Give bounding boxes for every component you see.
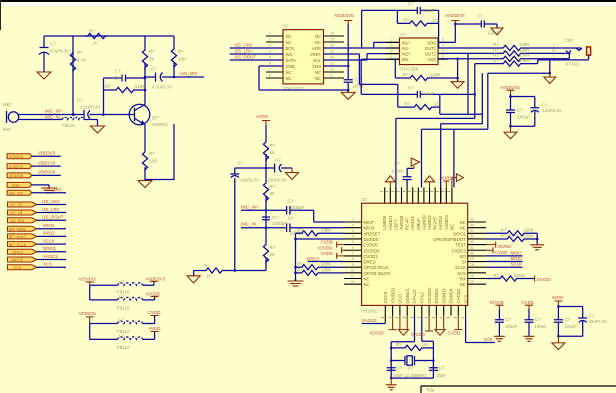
svg-text:100R: 100R — [430, 72, 441, 77]
svg-text:R?: R? — [493, 58, 499, 63]
svg-text:DREQ: DREQ — [13, 251, 24, 255]
svg-text:XTALI: XTALI — [420, 292, 425, 304]
svg-text:WS: WS — [286, 52, 293, 57]
svg-text:DREQ: DREQ — [307, 256, 320, 261]
svg-text:C?: C? — [77, 98, 83, 103]
svg-text:CN?: CN? — [565, 38, 574, 43]
svg-text:VDD: VDD — [312, 64, 321, 69]
svg-text:CVDD: CVDD — [448, 331, 460, 336]
svg-text:CVDD: CVDD — [148, 310, 160, 315]
svg-text:10uF6.3V: 10uF6.3V — [588, 319, 607, 324]
svg-text:8: 8 — [442, 38, 444, 42]
svg-text:I2S_LR: I2S_LR — [10, 211, 23, 215]
svg-text:C?: C? — [408, 2, 414, 7]
svg-text:8: 8 — [269, 74, 271, 78]
svg-text:31: 31 — [470, 246, 474, 250]
svg-text:C?: C? — [50, 42, 56, 47]
svg-text:C?: C? — [588, 313, 594, 318]
svg-text:2: 2 — [553, 43, 555, 47]
svg-text:10uF6.3V: 10uF6.3V — [543, 108, 562, 113]
svg-text:CVDD: CVDD — [495, 250, 507, 255]
svg-text:NC: NC — [460, 282, 466, 287]
svg-text:NC: NC — [315, 40, 321, 45]
svg-text:C?: C? — [238, 161, 244, 166]
svg-text:SPI_MISO: SPI_MISO — [9, 235, 27, 239]
svg-text:MISO: MISO — [43, 231, 55, 236]
svg-text:25: 25 — [470, 280, 474, 284]
svg-text:9: 9 — [330, 74, 332, 78]
svg-text:NC: NC — [315, 70, 321, 75]
svg-text:CAP: CAP — [114, 76, 123, 81]
svg-text:XADCS: XADCS — [43, 254, 58, 259]
svg-text:AVDD: AVDD — [441, 175, 453, 180]
svg-text:IOVDD: IOVDD — [498, 244, 512, 249]
svg-text:AIN_MIC: AIN_MIC — [44, 187, 62, 192]
svg-text:AVDD2V5: AVDD2V5 — [445, 13, 465, 18]
svg-text:XRESET: XRESET — [364, 231, 381, 236]
svg-text:DGND3: DGND3 — [441, 288, 446, 304]
svg-text:R?: R? — [89, 29, 95, 34]
svg-text:AGND1: AGND1 — [388, 215, 393, 230]
svg-text:1: 1 — [390, 38, 392, 42]
svg-text:R?: R? — [404, 18, 410, 23]
svg-text:32: 32 — [470, 240, 474, 244]
svg-text:R?: R? — [493, 47, 499, 52]
svg-text:MK?: MK? — [3, 102, 13, 107]
svg-text:26: 26 — [470, 274, 474, 278]
svg-text:VDD3V3: VDD3V3 — [38, 151, 56, 156]
svg-text:100K: 100K — [321, 227, 331, 232]
svg-text:CVDD: CVDD — [522, 300, 534, 305]
svg-text:R?: R? — [501, 233, 507, 238]
svg-text:1K: 1K — [92, 41, 97, 46]
svg-text:C?: C? — [288, 216, 294, 221]
svg-text:R?: R? — [105, 84, 111, 89]
svg-text:R?: R? — [149, 49, 155, 54]
svg-text:3K: 3K — [270, 191, 275, 196]
svg-text:FB110: FB110 — [117, 305, 130, 310]
svg-text:1: 1 — [352, 218, 354, 222]
svg-text:I2S_LR0: I2S_LR0 — [235, 48, 253, 53]
svg-text:AVDD2V5: AVDD2V5 — [334, 13, 354, 18]
svg-text:U?: U? — [362, 197, 368, 202]
svg-text:VREF: VREF — [310, 52, 322, 57]
svg-text:7: 7 — [269, 68, 271, 72]
svg-text:CVDD2: CVDD2 — [456, 288, 461, 303]
svg-text:R?: R? — [494, 273, 500, 278]
svg-text:2N3904: 2N3904 — [152, 122, 168, 127]
svg-text:MIC: MIC — [3, 127, 11, 132]
svg-text:3: 3 — [269, 44, 271, 48]
svg-text:CVDD3: CVDD3 — [452, 248, 467, 253]
svg-text:C?: C? — [275, 158, 281, 163]
svg-text:MIC_IN+: MIC_IN+ — [45, 109, 63, 114]
svg-text:NC: NC — [364, 277, 370, 282]
svg-text:XCS: XCS — [463, 295, 468, 304]
svg-text:100K: 100K — [523, 233, 533, 238]
svg-text:IN2+: IN2+ — [402, 52, 412, 57]
svg-text:47uF6.3V: 47uF6.3V — [50, 49, 69, 54]
svg-text:36: 36 — [470, 218, 474, 222]
svg-text:Title: Title — [426, 388, 435, 393]
svg-text:MICP: MICP — [364, 220, 375, 225]
svg-text:10K: 10K — [178, 57, 186, 62]
svg-text:AVDD: AVDD — [552, 295, 564, 300]
svg-text:IOVDD: IOVDD — [537, 277, 551, 282]
svg-text:R?: R? — [149, 151, 155, 156]
svg-text:30: 30 — [470, 252, 474, 256]
svg-text:12: 12 — [330, 56, 334, 60]
svg-text:IOVDD1: IOVDD1 — [390, 287, 395, 304]
svg-text:9: 9 — [352, 263, 354, 267]
svg-text:IOVDD: IOVDD — [411, 332, 425, 337]
svg-text:AOR: AOR — [312, 46, 321, 51]
svg-text:I2S_CK0: I2S_CK0 — [235, 42, 253, 47]
svg-text:OUT2: OUT2 — [425, 52, 437, 57]
svg-text:C?: C? — [272, 215, 278, 220]
svg-text:15: 15 — [330, 38, 334, 42]
svg-text:GPIO2 DCLK: GPIO2 DCLK — [364, 265, 389, 270]
svg-text:VS1001: VS1001 — [362, 309, 378, 314]
svg-text:CVDD1: CVDD1 — [364, 254, 379, 259]
svg-text:AIN_MIC: AIN_MIC — [180, 71, 198, 76]
svg-text:VDD2V5: VDD2V5 — [38, 160, 56, 165]
svg-text:C?: C? — [115, 69, 121, 74]
svg-text:VCO: VCO — [398, 294, 403, 304]
svg-text:VDD0V8: VDD0V8 — [9, 174, 23, 178]
svg-text:R?: R? — [405, 101, 411, 106]
svg-text:AVDD3V3: AVDD3V3 — [146, 276, 166, 281]
svg-text:R?: R? — [77, 50, 83, 55]
svg-text:1000pF: 1000pF — [272, 221, 287, 226]
svg-text:CVDD: CVDD — [321, 251, 333, 256]
svg-text:VDD: VDD — [427, 40, 436, 45]
svg-text:RCAP: RCAP — [405, 218, 410, 230]
svg-text:1000pF: 1000pF — [290, 205, 305, 210]
svg-text:MIC_IN+: MIC_IN+ — [241, 204, 259, 209]
svg-text:10: 10 — [330, 68, 334, 72]
svg-text:IOVDD0: IOVDD0 — [364, 248, 380, 253]
svg-text:35: 35 — [470, 223, 474, 227]
svg-text:33: 33 — [470, 235, 474, 239]
svg-text:DGND4: DGND4 — [449, 288, 454, 304]
svg-text:XTALO: XTALO — [412, 289, 417, 303]
svg-text:11: 11 — [330, 62, 334, 66]
svg-text:AVDD: AVDD — [256, 114, 268, 119]
svg-text:AOL: AOL — [313, 58, 322, 63]
svg-text:510K: 510K — [135, 84, 145, 89]
svg-text:L?: L? — [119, 294, 124, 299]
svg-text:XCS: XCS — [457, 271, 466, 276]
svg-text:LINEIN: LINEIN — [382, 216, 387, 230]
svg-text:6: 6 — [269, 62, 271, 66]
svg-text:XCS: XCS — [14, 266, 22, 270]
svg-text:X?: X? — [408, 366, 414, 371]
svg-text:GPIO1: GPIO1 — [453, 231, 466, 236]
svg-text:LEFT: LEFT — [393, 219, 398, 230]
svg-text:AVDD1: AVDD1 — [410, 215, 415, 230]
svg-text:AVDD2V5: AVDD2V5 — [500, 85, 520, 90]
svg-text:R?: R? — [298, 267, 304, 272]
svg-text:29: 29 — [470, 257, 474, 261]
svg-text:10pF: 10pF — [393, 373, 403, 378]
svg-text:R?: R? — [298, 262, 304, 267]
svg-text:2.2uF6.3V: 2.2uF6.3V — [80, 105, 100, 110]
svg-text:100nF: 100nF — [392, 168, 405, 173]
svg-text:1K: 1K — [270, 150, 275, 155]
svg-text:C?: C? — [394, 161, 400, 166]
svg-text:IOVDD: IOVDD — [146, 291, 160, 296]
svg-text:SCLK: SCLK — [43, 238, 55, 243]
svg-text:2: 2 — [352, 223, 354, 227]
svg-text:R?: R? — [298, 227, 304, 232]
svg-text:IN1-: IN1- — [402, 46, 411, 51]
svg-text:1K: 1K — [206, 274, 211, 279]
svg-text:2: 2 — [390, 44, 392, 48]
svg-text:MIC_IN-: MIC_IN- — [241, 222, 258, 227]
svg-text:NC: NC — [286, 70, 292, 75]
svg-text:100R: 100R — [519, 53, 530, 58]
svg-text:AVDD: AVDD — [149, 326, 161, 331]
svg-text:4.7K: 4.7K — [77, 58, 86, 63]
svg-text:7: 7 — [352, 252, 354, 256]
svg-text:4: 4 — [352, 235, 354, 239]
svg-text:C?: C? — [542, 103, 548, 108]
svg-text:C?: C? — [535, 317, 541, 322]
svg-text:12: 12 — [351, 280, 355, 284]
svg-text:GND: GND — [286, 64, 295, 69]
svg-text:SCLK: SCLK — [511, 262, 523, 267]
svg-text:12.288MHz: 12.288MHz — [404, 373, 426, 378]
svg-text:10: 10 — [552, 49, 556, 53]
svg-text:MOSI: MOSI — [43, 223, 54, 228]
svg-text:IOVDD: IOVDD — [370, 331, 384, 336]
svg-text:R?: R? — [204, 264, 210, 269]
svg-text:C?: C? — [408, 86, 414, 91]
svg-text:I2S_CK: I2S_CK — [10, 203, 23, 207]
svg-text:4: 4 — [390, 55, 392, 59]
svg-text:100R: 100R — [519, 47, 530, 52]
svg-text:5: 5 — [352, 240, 354, 244]
svg-text:0.1uF: 0.1uF — [423, 8, 435, 13]
svg-text:C?: C? — [565, 317, 571, 322]
svg-text:100nF: 100nF — [505, 324, 518, 329]
svg-text:100K: 100K — [515, 273, 525, 278]
svg-text:R?: R? — [178, 49, 184, 54]
svg-text:GPIO0/SPIBOOT: GPIO0/SPIBOOT — [433, 237, 466, 242]
svg-text:XDCS: XDCS — [383, 291, 388, 303]
svg-text:16: 16 — [330, 32, 334, 36]
svg-text:R?: R? — [270, 143, 276, 148]
svg-text:C?: C? — [506, 317, 512, 322]
svg-text:I2S_DIN: I2S_DIN — [10, 219, 24, 223]
svg-text:SO: SO — [460, 254, 467, 259]
svg-text:10: 10 — [351, 269, 355, 273]
svg-text:TEST: TEST — [455, 243, 466, 248]
svg-text:R?: R? — [403, 72, 409, 77]
svg-text:VDD2V5: VDD2V5 — [9, 165, 23, 169]
svg-text:AVDD2: AVDD2 — [438, 215, 443, 230]
svg-text:100nF: 100nF — [565, 324, 578, 329]
svg-text:C?: C? — [477, 14, 483, 19]
svg-text:IOVDD: IOVDD — [318, 245, 332, 250]
svg-text:GBUF: GBUF — [416, 218, 421, 230]
svg-text:I2S_DOUT: I2S_DOUT — [42, 215, 64, 220]
svg-text:6: 6 — [442, 49, 444, 53]
svg-text:2K: 2K — [149, 57, 154, 62]
svg-text:NC: NC — [315, 34, 321, 39]
svg-text:10pF: 10pF — [436, 373, 446, 378]
svg-text:C?: C? — [288, 199, 294, 204]
svg-text:NC: NC — [286, 34, 292, 39]
svg-text:NC: NC — [364, 282, 370, 287]
svg-text:FB110: FB110 — [117, 345, 130, 350]
svg-text:NC: NC — [460, 220, 466, 225]
svg-text:100K: 100K — [321, 262, 331, 267]
svg-text:MIC_IN-: MIC_IN- — [45, 114, 62, 119]
svg-text:IN2-: IN2- — [402, 57, 411, 62]
svg-text:I2S_LR0: I2S_LR0 — [42, 207, 60, 212]
svg-text:DGND1: DGND1 — [405, 288, 410, 304]
svg-text:3: 3 — [352, 229, 354, 233]
svg-text:C?: C? — [517, 108, 523, 113]
svg-text:L?: L? — [119, 333, 124, 338]
svg-text:2: 2 — [269, 38, 271, 42]
svg-text:28: 28 — [470, 263, 474, 267]
svg-text:NC: NC — [460, 226, 466, 231]
svg-text:2K: 2K — [270, 252, 275, 257]
svg-text:7: 7 — [442, 44, 444, 48]
svg-text:KT-611: KT-611 — [566, 62, 580, 67]
svg-text:1M: 1M — [422, 342, 428, 347]
svg-text:TDA1308: TDA1308 — [400, 67, 419, 72]
svg-text:OUT1: OUT1 — [425, 46, 437, 51]
svg-text:SPI_MOSI: SPI_MOSI — [9, 227, 26, 231]
svg-text:AGND0: AGND0 — [421, 215, 426, 230]
svg-text:XADCS: XADCS — [362, 318, 377, 323]
svg-text:R?: R? — [501, 228, 507, 233]
svg-text:RX: RX — [460, 277, 466, 282]
svg-text:CVDD0: CVDD0 — [364, 243, 379, 248]
svg-text:C?: C? — [397, 366, 403, 371]
svg-text:I2S_DOUT: I2S_DOUT — [235, 54, 257, 59]
svg-text:4: 4 — [269, 50, 271, 54]
svg-text:NC: NC — [286, 76, 292, 81]
svg-text:R?: R? — [493, 53, 499, 58]
svg-text:DATA: DATA — [286, 58, 297, 63]
svg-text:DGND2: DGND2 — [434, 288, 439, 304]
svg-text:XCS: XCS — [43, 262, 52, 267]
svg-text:VDD3V3: VDD3V3 — [9, 155, 23, 159]
svg-text:34: 34 — [470, 229, 474, 233]
svg-text:I2S_CK0: I2S_CK0 — [42, 199, 60, 204]
svg-text:XCS: XCS — [483, 337, 492, 342]
svg-text:12K: 12K — [434, 101, 442, 106]
svg-text:13: 13 — [330, 50, 334, 54]
svg-text:RIGHT: RIGHT — [433, 216, 438, 230]
svg-text:DREQ: DREQ — [43, 246, 56, 251]
svg-text:6: 6 — [352, 246, 354, 250]
svg-text:VDD0V8: VDD0V8 — [38, 170, 56, 175]
svg-text:100K: 100K — [321, 267, 331, 272]
svg-text:NC: NC — [315, 76, 321, 81]
svg-text:5: 5 — [269, 56, 271, 60]
svg-text:8: 8 — [352, 257, 354, 261]
svg-text:14: 14 — [330, 44, 334, 48]
svg-text:3: 3 — [390, 49, 392, 53]
svg-text:R?: R? — [493, 42, 499, 47]
svg-text:Q?: Q? — [152, 115, 158, 120]
svg-text:27: 27 — [470, 269, 474, 273]
svg-text:C?: C? — [439, 366, 445, 371]
svg-text:CVDD: CVDD — [321, 240, 333, 245]
svg-text:U?: U? — [400, 32, 406, 37]
svg-text:IOVDD2: IOVDD2 — [427, 287, 432, 304]
svg-text:R?: R? — [270, 184, 276, 189]
svg-text:GPIO3 SDATA: GPIO3 SDATA — [364, 271, 392, 276]
svg-text:SCLK: SCLK — [455, 265, 466, 270]
svg-text:GND: GND — [12, 184, 21, 188]
svg-text:U?: U? — [283, 24, 289, 29]
svg-text:VDD2V5: VDD2V5 — [79, 311, 97, 316]
svg-text:VSS: VSS — [428, 57, 437, 62]
svg-text:SI: SI — [462, 260, 466, 265]
svg-text:10uF6.3V: 10uF6.3V — [240, 178, 259, 183]
svg-text:51R: 51R — [149, 159, 157, 164]
svg-text:BCK: BCK — [286, 46, 295, 51]
svg-text:10uF6.3V: 10uF6.3V — [268, 178, 287, 183]
svg-text:100R: 100R — [519, 58, 530, 63]
svg-text:AIN_MIC: AIN_MIC — [9, 191, 24, 195]
svg-text:MOSI: MOSI — [511, 256, 522, 261]
svg-text:11: 11 — [351, 274, 355, 278]
svg-text:XADCS: XADCS — [11, 258, 24, 262]
svg-text:L?: L? — [119, 318, 124, 323]
svg-text:100nF: 100nF — [535, 324, 548, 329]
svg-text:100K: 100K — [523, 228, 533, 233]
svg-text:1: 1 — [553, 54, 555, 58]
svg-text:VDD3V3: VDD3V3 — [79, 276, 97, 281]
svg-text:IOVDD: IOVDD — [490, 300, 504, 305]
svg-text:100R: 100R — [519, 42, 530, 47]
svg-text:AGND3: AGND3 — [444, 215, 449, 230]
svg-text:AGND2: AGND2 — [427, 215, 432, 230]
svg-text:C?: C? — [151, 67, 157, 72]
svg-text:AVDD0: AVDD0 — [399, 215, 404, 230]
svg-text:C?: C? — [355, 77, 361, 82]
svg-text:FB110: FB110 — [62, 123, 75, 128]
svg-text:R?: R? — [270, 245, 276, 250]
svg-text:4.7uF6.3V: 4.7uF6.3V — [152, 85, 172, 90]
svg-text:MISO: MISO — [511, 250, 523, 255]
svg-text:R?: R? — [396, 342, 402, 347]
svg-text:NC: NC — [286, 40, 292, 45]
svg-text:12K: 12K — [432, 18, 440, 23]
svg-text:100uF: 100uF — [518, 114, 531, 119]
svg-text:MICN: MICN — [364, 226, 375, 231]
svg-text:SPI_SCLK: SPI_SCLK — [9, 243, 27, 247]
svg-text:NC: NC — [449, 224, 454, 230]
svg-text:DREQ: DREQ — [364, 260, 377, 265]
svg-text:DGND0: DGND0 — [364, 237, 379, 242]
svg-text:L?: L? — [119, 279, 124, 284]
svg-text:1: 1 — [269, 32, 271, 36]
svg-text:0.1uF: 0.1uF — [423, 91, 435, 96]
svg-text:IN1+: IN1+ — [402, 40, 412, 45]
